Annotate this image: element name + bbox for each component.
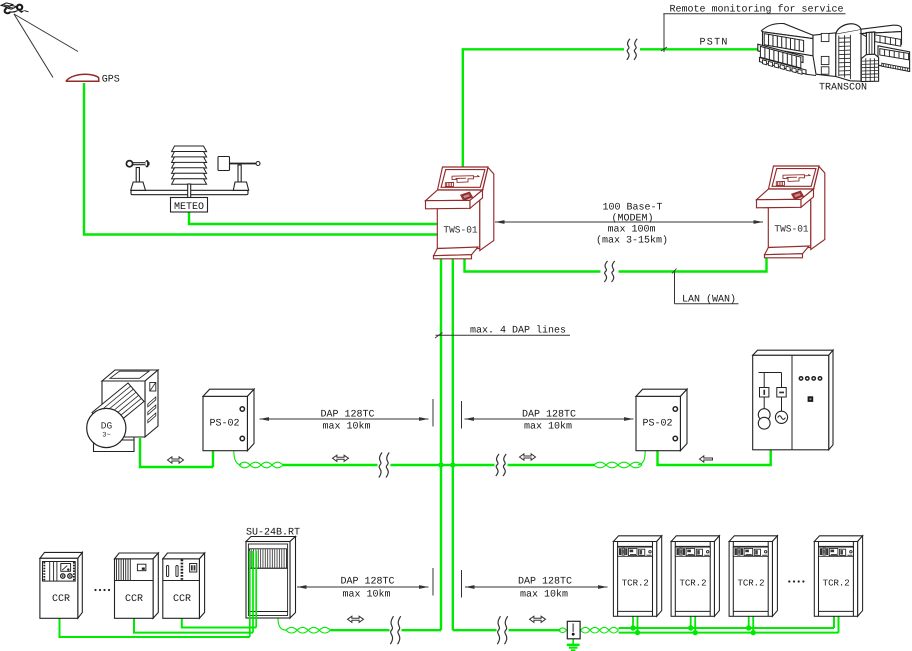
svg-text:(MODEM): (MODEM) <box>611 213 653 225</box>
svg-text:CCR: CCR <box>173 594 191 605</box>
svg-text:PSTN: PSTN <box>700 38 729 49</box>
svg-text:max 100m: max 100m <box>607 225 655 236</box>
svg-text:CCR: CCR <box>125 594 143 605</box>
svg-text:max 10km: max 10km <box>322 420 370 432</box>
svg-text:TWS-01: TWS-01 <box>443 225 478 236</box>
svg-text:max 10km: max 10km <box>524 420 572 432</box>
svg-text:TRANSCON: TRANSCON <box>819 83 867 94</box>
svg-text:3~: 3~ <box>102 432 110 440</box>
svg-text:100 Base-T: 100 Base-T <box>602 203 662 214</box>
svg-text:DAP 128TC: DAP 128TC <box>518 576 572 587</box>
svg-text:DG: DG <box>101 421 113 432</box>
svg-text:DAP 128TC: DAP 128TC <box>340 576 394 587</box>
svg-text:max 10km: max 10km <box>520 589 568 601</box>
svg-text:METEO: METEO <box>174 202 204 213</box>
svg-text:PS-02: PS-02 <box>209 419 239 430</box>
svg-text:GPS: GPS <box>102 74 120 85</box>
svg-text:max 10km: max 10km <box>342 589 390 601</box>
svg-text:CCR: CCR <box>52 594 70 605</box>
svg-text:TCR.2: TCR.2 <box>622 578 649 588</box>
svg-text:(max 3-15km): (max 3-15km) <box>596 235 668 247</box>
svg-text:LAN (WAN): LAN (WAN) <box>682 293 736 305</box>
